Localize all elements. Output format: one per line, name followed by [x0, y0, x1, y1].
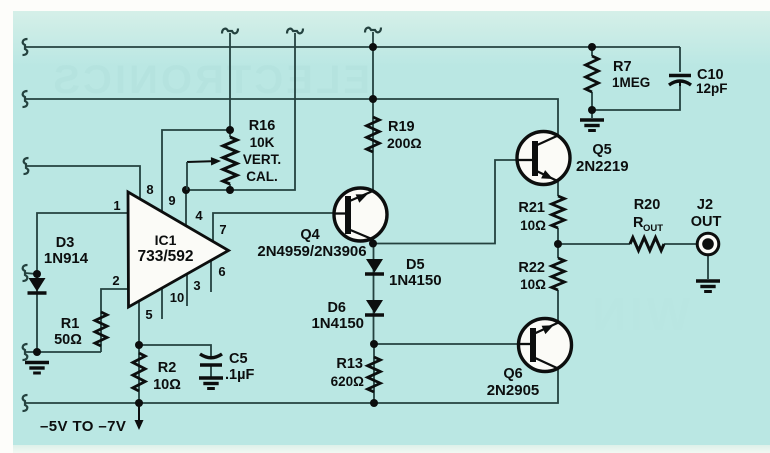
capacitor C10: [669, 74, 691, 78]
svg-text:8: 8: [146, 182, 153, 197]
svg-text:5: 5: [145, 307, 152, 322]
svg-text:Q4: Q4: [300, 227, 319, 243]
svg-text:2: 2: [112, 273, 119, 288]
wire-break left D3: [23, 265, 28, 281]
svg-text:200Ω: 200Ω: [387, 135, 422, 151]
node Q4-D5: [369, 240, 377, 248]
wire-break top R16 feed: [222, 29, 238, 34]
svg-text:Q5: Q5: [592, 142, 611, 158]
wire pin 6 stub: [210, 261, 212, 292]
svg-text:D6: D6: [327, 300, 346, 316]
resistor R19: [367, 117, 380, 152]
svg-text:7: 7: [219, 222, 226, 237]
wire-break top R19 feed: [365, 28, 381, 33]
wire R21 to R22: [557, 228, 559, 258]
svg-text:R13: R13: [336, 356, 363, 372]
svg-text:Q6: Q6: [503, 366, 522, 382]
svg-text:D5: D5: [406, 257, 425, 273]
svg-text:620Ω: 620Ω: [331, 374, 365, 389]
wire ground bus to R1: [25, 351, 101, 353]
wire pin 1 to D3: [37, 213, 128, 352]
wire rail V+ top: [25, 46, 680, 48]
wire C5 to ground: [210, 366, 212, 377]
svg-text:10Ω: 10Ω: [520, 218, 546, 233]
svg-text:733/592: 733/592: [137, 248, 193, 265]
svg-text:6: 6: [218, 264, 225, 279]
node pin5-R2-C5: [135, 341, 143, 349]
ground D3: [25, 361, 49, 364]
node rail1-R19: [369, 43, 377, 51]
wire-break left rail 2: [23, 91, 28, 107]
wire D6 node to Q6 base: [374, 343, 519, 345]
resistor R13: [368, 357, 381, 392]
node D3 anode: [33, 270, 41, 278]
wire pin 4 stub: [185, 190, 187, 226]
transistor Q6: [519, 319, 572, 372]
connector J2 jack: [697, 233, 719, 255]
arrow negative supply: [138, 405, 140, 420]
wire-break left rail V+: [23, 39, 28, 55]
ground C5: [199, 376, 223, 379]
potentiometer R16 wiper arrow: [187, 160, 211, 163]
wire bottom negative rail: [25, 368, 558, 403]
wire pin 5 / R2 branch: [138, 302, 140, 420]
svg-text:CAL.: CAL.: [246, 169, 278, 184]
wire R13 branch: [373, 344, 375, 403]
svg-text:VERT.: VERT.: [243, 152, 281, 167]
wire R16 top feed: [229, 33, 231, 137]
resistor R21: [552, 196, 565, 228]
svg-text:2N2905: 2N2905: [487, 382, 540, 399]
wire C10 bottom to R7: [592, 86, 680, 110]
svg-text:ELECTRONICS: ELECTRONICS: [50, 58, 370, 102]
node wiper-pin4: [182, 186, 190, 194]
svg-text:10: 10: [170, 290, 184, 305]
svg-text:R20: R20: [634, 197, 661, 213]
node R16 bottom: [226, 186, 234, 194]
diode D3: [29, 278, 46, 292]
op-amp IC1 body: [128, 192, 229, 307]
wire R1 to pin 2: [101, 289, 128, 352]
wire left break to D3 anode: [25, 273, 37, 274]
svg-text:12pF: 12pF: [696, 81, 728, 96]
svg-text:WIN: WIN: [589, 288, 690, 340]
svg-text:D3: D3: [56, 235, 75, 251]
svg-text:C5: C5: [229, 351, 248, 367]
resistor R7: [586, 56, 599, 92]
wire D5 D6 chain: [373, 243, 375, 344]
resistor R20: [630, 238, 664, 251]
resistor R2: [133, 353, 145, 391]
svg-text:1N4150: 1N4150: [389, 272, 442, 289]
wire R19 branch: [372, 32, 374, 190]
node R2-rail: [135, 399, 143, 407]
wire C10 top lead: [679, 47, 681, 72]
node D6-R13-Q6: [370, 340, 378, 348]
svg-text:–5V TO –7V: –5V TO –7V: [40, 418, 126, 435]
svg-text:1N914: 1N914: [44, 250, 89, 267]
wire pin 10 stub: [161, 289, 163, 319]
resistor R22: [552, 258, 565, 290]
svg-text:10K: 10K: [250, 135, 275, 150]
transistor Q4: [334, 188, 387, 241]
wire J2 to ground: [707, 254, 709, 279]
svg-text:R16: R16: [249, 118, 276, 134]
svg-text:IC1: IC1: [155, 232, 177, 248]
node R13-rail: [370, 399, 378, 407]
wire-break left bottom rail: [23, 395, 28, 411]
wire junction to C5: [139, 345, 211, 357]
wire R7 bottom lead: [591, 92, 593, 118]
wire R7 top lead: [591, 47, 593, 56]
wire R20 to J2: [664, 243, 698, 245]
node R16 top: [226, 126, 234, 134]
svg-text:J2: J2: [697, 197, 713, 213]
svg-text:OUT: OUT: [691, 214, 722, 230]
wire-break top net B: [287, 29, 303, 34]
wire pot bottom stub: [229, 184, 231, 190]
resistor R1: [95, 312, 107, 346]
wire Q5 emitter to R21: [557, 180, 559, 196]
svg-text:.1µF: .1µF: [225, 367, 254, 383]
svg-text:10Ω: 10Ω: [520, 277, 546, 292]
svg-text:R2: R2: [158, 360, 177, 376]
svg-text:10Ω: 10Ω: [153, 377, 181, 393]
svg-text:R7: R7: [613, 59, 632, 75]
wire pin 3 stub: [186, 275, 188, 306]
ground R7: [580, 118, 604, 121]
node D3 cathode-ground: [33, 348, 41, 356]
wire pin 7 to Q4 base: [213, 213, 334, 241]
wire Q4 collector to D5: [372, 239, 374, 247]
svg-text:2N2219: 2N2219: [576, 158, 629, 175]
svg-text:OUT: OUT: [643, 223, 663, 234]
capacitor C5: [200, 354, 222, 358]
svg-text:1MEG: 1MEG: [612, 75, 650, 90]
node R21-R22-output: [554, 240, 562, 248]
svg-text:R22: R22: [518, 260, 545, 276]
wire Q4 emitter node to Q5 base: [373, 160, 517, 244]
ground J2: [696, 279, 720, 282]
wire input to pin 8: [27, 166, 140, 200]
wire R16 bottom to net: [186, 33, 295, 190]
diode D5: [366, 259, 383, 273]
node R7-C10 bottom: [588, 106, 596, 114]
diode D6: [366, 300, 383, 314]
wire-break left input: [24, 158, 29, 174]
node rail1-R7: [588, 43, 596, 51]
potentiometer R16 element: [223, 137, 237, 184]
svg-text:4: 4: [195, 208, 203, 223]
svg-text:9: 9: [168, 193, 175, 208]
svg-text:1N4150: 1N4150: [311, 315, 364, 332]
wire output node to R20: [558, 243, 630, 245]
svg-text:R19: R19: [388, 119, 415, 135]
node rail2-R19: [369, 95, 377, 103]
svg-text:2N4959/2N3906: 2N4959/2N3906: [257, 243, 366, 260]
svg-text:R1: R1: [61, 316, 80, 332]
wire rail second: [25, 99, 558, 136]
svg-text:1: 1: [113, 198, 120, 213]
transistor Q5: [517, 132, 570, 185]
svg-text:50Ω: 50Ω: [54, 332, 82, 348]
wire R22 to Q6 emitter: [557, 290, 559, 322]
wire pin 9 to R16 top: [162, 130, 230, 212]
wire-break left ground bus: [23, 344, 28, 360]
svg-text:3: 3: [193, 278, 200, 293]
svg-text:R21: R21: [518, 200, 545, 216]
